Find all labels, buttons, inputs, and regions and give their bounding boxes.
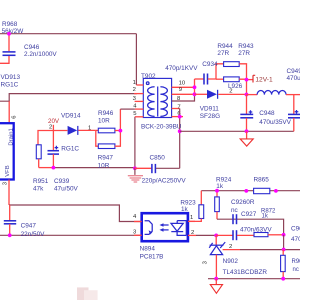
svg-text:C946: C946 [24,44,40,51]
resistor R872 [254,208,284,236]
pin 4 opto [133,214,142,222]
ground earth symbol primary [128,168,143,182]
svg-text:12V-1: 12V-1 [255,77,273,84]
svg-text:R964: R964 [292,259,301,265]
svg-text:2: 2 [229,88,232,94]
wire opto pin2 to TL431 [196,234,216,236]
svg-text:C947: C947 [21,222,37,229]
svg-text:VD913: VD913 [1,74,21,81]
op-amp U1 power IC block VFB/Drain1 [0,123,15,179]
svg-text:470u: 470u [287,75,301,82]
svg-text:9: 9 [179,87,182,93]
shunt regulator N902 TL431 [203,235,268,278]
svg-text:470u/35VV: 470u/35VV [259,119,291,126]
svg-text:C9260R: C9260R [231,199,255,206]
svg-text:N894: N894 [140,246,156,253]
svg-text:RG1C: RG1C [1,81,19,88]
svg-text:R946: R946 [98,110,114,117]
capacitor C927 [216,211,272,240]
svg-text:22n/50V: 22n/50V [21,231,46,238]
wire C960 column [283,235,285,250]
svg-text:nc: nc [231,207,239,214]
wire top HV rail [0,33,136,35]
wire IC drain riser [8,101,10,123]
pin 2 T902 [133,87,144,94]
pin 6 T902 [172,111,183,117]
net label 20V [48,118,60,131]
wire pin5 descent [134,117,136,168]
pin 4 T902 [133,104,143,110]
svg-text:SF28G: SF28G [200,113,220,120]
svg-text:2: 2 [49,125,52,131]
optocoupler N894 PC817B [140,213,188,260]
pin 1 T902 [133,80,144,86]
ground triangle secondary [240,131,253,146]
diode VD913 (symbol off-sheet, label only) [1,74,21,89]
svg-text:470n: 470n [291,236,300,243]
wire secondary ground rail [180,130,294,132]
node primary gnd dot [133,166,137,170]
resistor R923 [180,191,203,222]
svg-text:2: 2 [191,230,194,236]
wire IC pin3 to VFB net [9,180,142,222]
wire pin4 riser [119,109,121,130]
svg-text:2: 2 [133,87,136,93]
net label 12V-1 [247,75,273,83]
pin 7 T902 [172,104,181,110]
resistor R968 (symbol off-sheet, label only) [2,21,25,35]
svg-text:VFB: VFB [5,165,11,177]
node HV junction dot [7,32,11,36]
diode VD911 [195,90,247,120]
svg-text:R943: R943 [238,43,254,50]
svg-text:RG1C: RG1C [61,145,79,152]
svg-text:1: 1 [88,125,91,131]
wire cold rail left [0,234,142,236]
resistor R951 [33,145,49,193]
wire sec return column [179,109,181,169]
svg-text:C949: C949 [287,68,301,75]
svg-text:PC817B: PC817B [140,254,164,261]
svg-text:C960: C960 [291,226,300,233]
svg-text:27R: 27R [217,50,229,57]
transformer T902 [141,73,182,131]
wire feedback row A [201,190,300,192]
node C939 gnd dot [52,166,56,170]
svg-text:27R: 27R [238,50,250,57]
wire pin1 riser [135,34,137,85]
svg-text:C948: C948 [259,110,275,117]
svg-text:47k: 47k [33,185,44,192]
capacitor C947 [4,205,45,238]
svg-text:47u/50V: 47u/50V [54,185,79,192]
wire drain net from left edge [0,94,137,102]
svg-text:T902: T902 [141,73,156,80]
svg-text:R865: R865 [254,177,270,184]
wire bottom cold rail [208,278,300,280]
node C947 cold rail dot [8,233,12,237]
svg-text:10: 10 [179,81,186,87]
pin 3 opto [133,230,142,236]
capacitor C850 [135,155,186,185]
resistor R943 [216,43,254,95]
pin 10 T902 [172,81,195,88]
diode VD914 [61,112,96,152]
capacitor C948 [240,95,291,132]
svg-text:2: 2 [229,244,232,250]
svg-text:1k: 1k [262,214,269,220]
pin 2 opto [188,230,196,236]
resistor R944 [217,43,246,80]
resistor R924 [215,176,232,219]
pin 9 T902 [172,87,195,94]
pin 1 opto [188,215,195,221]
svg-text:470p/1KVV: 470p/1KVV [165,65,198,72]
wire R951 C939 ground row [39,167,54,169]
resistor R865 [254,177,270,194]
svg-text:C850: C850 [150,155,166,162]
capacitor C939 [48,131,79,193]
wire nc cap row [217,219,284,235]
node R946 R947 right dot [119,129,123,133]
svg-text:1: 1 [133,80,136,86]
svg-text:R951: R951 [33,178,49,185]
pink highlight blob [77,287,98,300]
wire sec winding hot column [194,79,196,94]
svg-text:Drain1: Drain1 [9,128,15,145]
pin 5 T902 [133,111,143,117]
resistor R947 [96,130,121,169]
resistor R946 [96,110,121,133]
svg-text:N902: N902 [223,258,239,265]
svg-text:R944: R944 [217,43,233,50]
capacitor C9260R [231,199,255,224]
svg-text:2.2n/1000V: 2.2n/1000V [24,51,57,58]
capacitor C934 [165,61,223,85]
wire ref net [240,249,300,251]
pin 3 T902 [133,96,144,102]
resistor R964 nc [281,250,307,279]
svg-text:220p/AC250VV: 220p/AC250VV [142,177,187,184]
ground triangle cold [210,279,222,294]
svg-text:TL431BCDBZR: TL431BCDBZR [223,269,268,276]
svg-text:VD911: VD911 [200,105,220,112]
svg-text:10R: 10R [98,117,110,124]
svg-text:C939: C939 [54,178,70,185]
pin 8 T902 [172,94,195,102]
capacitor C960 (symbol off-sheet, label only) [291,226,307,244]
capacitor C949 [287,68,303,132]
inductor L926 [228,83,300,94]
svg-text:1: 1 [190,215,193,221]
svg-text:56k/2W: 56k/2W [2,28,25,35]
svg-text:C934: C934 [202,61,218,68]
svg-text:10R: 10R [98,162,110,169]
capacitor C946 [0,34,57,64]
svg-text:nc: nc [293,267,299,273]
svg-text:C927: C927 [241,211,257,218]
svg-text:R947: R947 [98,155,114,162]
wire 20V node row [38,131,67,145]
svg-text:BCK-20-39BU: BCK-20-39BU [141,123,182,130]
svg-text:VD914: VD914 [61,112,81,119]
